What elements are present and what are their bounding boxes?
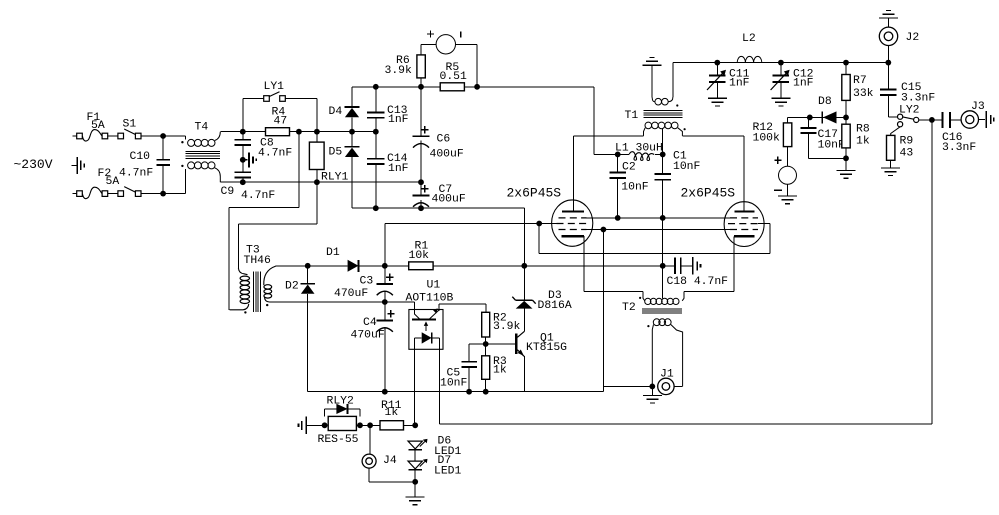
svg-text:2x6P45S: 2x6P45S [681, 186, 736, 201]
svg-text:470uF: 470uF [334, 288, 368, 300]
svg-text:T1: T1 [625, 110, 639, 122]
svg-text:C6: C6 [437, 134, 451, 146]
svg-text:1nF: 1nF [729, 78, 750, 90]
svg-text:LY2: LY2 [899, 105, 920, 117]
svg-text:10k: 10k [409, 250, 430, 262]
svg-text:10nF: 10nF [673, 161, 701, 173]
svg-text:47: 47 [274, 116, 288, 128]
svg-text:C9: C9 [221, 186, 235, 198]
svg-text:LY1: LY1 [264, 81, 285, 93]
svg-text:AOT110B: AOT110B [406, 293, 454, 305]
svg-text:4.7nF: 4.7nF [119, 168, 153, 180]
svg-text:5A: 5A [91, 120, 105, 132]
svg-text:D8: D8 [818, 96, 832, 108]
svg-text:2x6P45S: 2x6P45S [507, 186, 562, 201]
svg-text:C3: C3 [360, 276, 374, 288]
svg-text:J1: J1 [660, 369, 674, 381]
svg-text:43: 43 [900, 148, 914, 160]
svg-text:C10: C10 [130, 151, 151, 163]
svg-text:0.51: 0.51 [440, 71, 468, 83]
svg-text:5A: 5A [106, 176, 120, 188]
svg-text:400uF: 400uF [430, 149, 464, 161]
svg-text:1k: 1k [856, 136, 870, 148]
svg-text:1nF: 1nF [793, 78, 814, 90]
svg-text:R8: R8 [856, 124, 870, 136]
svg-text:R7: R7 [853, 75, 867, 87]
svg-text:D816A: D816A [538, 300, 572, 312]
svg-text:3.3nF: 3.3nF [942, 142, 976, 154]
svg-text:L1 30uH: L1 30uH [615, 142, 663, 154]
svg-text:RLY1: RLY1 [321, 172, 349, 184]
svg-text:L2: L2 [742, 33, 756, 45]
svg-text:T2: T2 [622, 302, 636, 314]
svg-text:10nF: 10nF [621, 181, 649, 193]
svg-text:4.7nF: 4.7nF [241, 190, 275, 202]
svg-text:D5: D5 [329, 147, 343, 159]
svg-text:C18 4.7nF: C18 4.7nF [667, 276, 729, 288]
svg-text:10nF: 10nF [818, 140, 846, 152]
svg-text:T4: T4 [195, 122, 209, 134]
svg-text:J2: J2 [906, 32, 920, 44]
svg-text:3.3nF: 3.3nF [901, 93, 935, 105]
svg-text:470uF: 470uF [351, 330, 385, 342]
svg-text:33k: 33k [853, 88, 874, 100]
svg-text:LED1: LED1 [434, 466, 462, 478]
svg-text:D4: D4 [329, 106, 343, 118]
svg-text:D2: D2 [285, 281, 299, 293]
svg-text:KT815G: KT815G [526, 342, 567, 354]
svg-text:3.9k: 3.9k [493, 321, 521, 333]
svg-text:D1: D1 [326, 247, 340, 259]
svg-text:J3: J3 [971, 101, 985, 113]
svg-text:3.9k: 3.9k [385, 65, 413, 77]
svg-text:RES-55: RES-55 [318, 434, 359, 446]
svg-text:~230V: ~230V [14, 157, 53, 172]
svg-text:R9: R9 [900, 136, 914, 148]
svg-text:J4: J4 [383, 455, 397, 467]
svg-text:400uF: 400uF [432, 193, 466, 205]
svg-text:1nF: 1nF [388, 163, 409, 175]
svg-text:1nF: 1nF [388, 114, 409, 126]
svg-text:C4: C4 [363, 317, 377, 329]
svg-text:RLY2: RLY2 [327, 395, 355, 407]
svg-text:10nF: 10nF [440, 378, 468, 390]
svg-text:S1: S1 [123, 119, 137, 131]
svg-text:100k: 100k [753, 133, 781, 145]
svg-text:4.7nF: 4.7nF [258, 148, 292, 160]
svg-text:U1: U1 [427, 280, 441, 292]
svg-text:1k: 1k [493, 365, 507, 377]
svg-text:TH46: TH46 [244, 255, 272, 267]
svg-text:C2: C2 [622, 161, 636, 173]
svg-text:1k: 1k [385, 407, 399, 419]
